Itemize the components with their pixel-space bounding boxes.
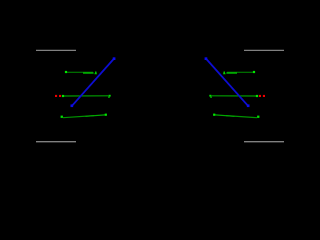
pin 2 line (top contact): [67, 71, 93, 73]
wire overlap on pin 4: [215, 115, 234, 116]
pin 5 (bottom gray pin line): [244, 141, 284, 143]
net endpoint node (top of blue wire): [205, 57, 208, 60]
net segment (blue throw wire): [206, 59, 248, 106]
wire overlap on pin 2: [83, 72, 94, 74]
unconnected net endpoint marker (red): [59, 95, 61, 97]
wire overlap on pin 2: [226, 72, 237, 74]
pin 4 line (bottom contact, slanted wire): [226, 116, 257, 118]
pin 4 end terminal square: [105, 114, 107, 116]
unconnected net endpoint marker (red): [263, 95, 265, 97]
pin 3 terminal square (middle contact, common): [62, 95, 64, 97]
pin 3 end terminal tail: [210, 96, 212, 98]
pin 2 line (top contact): [227, 71, 253, 73]
pin 4 terminal square (bottom contact, left): [257, 116, 259, 118]
pin 1 (top gray pin line): [36, 49, 76, 51]
net endpoint node (bottom of blue wire): [247, 104, 250, 107]
net segment (blue throw wire): [72, 59, 114, 106]
pin 4 end terminal square: [213, 114, 215, 116]
pin 2 terminal square (top contact): [65, 71, 67, 73]
pin 3 end terminal (bent): [209, 95, 211, 97]
net endpoint node (top of blue wire): [113, 57, 116, 60]
pin 3 end terminal tail: [108, 96, 110, 98]
net endpoint node (bottom of blue wire): [71, 104, 74, 107]
arrow head (wiper arrow, top contact): [94, 72, 97, 75]
pin 3 line (middle contact): [64, 95, 108, 97]
switch SW1 (left symbol): [36, 50, 115, 141]
pin 3 end terminal (bent): [109, 95, 111, 97]
unconnected net endpoint marker (red): [55, 95, 57, 97]
switch SW2 (right symbol, mirrored): [205, 50, 284, 141]
arrow head (wiper arrow, top contact): [223, 72, 226, 75]
pin 4 terminal square (bottom contact, left): [61, 116, 63, 118]
pin 5 (bottom gray pin line): [36, 141, 76, 143]
pin 3 line (middle contact): [212, 95, 256, 97]
pin 4 line (bottom contact, slanted wire): [63, 116, 94, 118]
pin 2 terminal square (top contact): [253, 71, 255, 73]
pin 3 terminal square (middle contact, common): [256, 95, 258, 97]
wire overlap on pin 4: [86, 115, 105, 116]
unconnected net endpoint marker (red): [259, 95, 261, 97]
pin 1 (top gray pin line): [244, 49, 284, 51]
